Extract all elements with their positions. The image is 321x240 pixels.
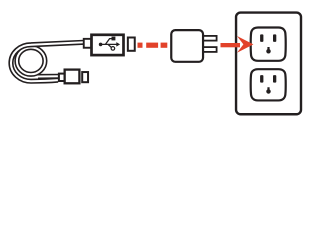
charger prong lower [203,47,217,52]
outlet receptacle upper [251,28,286,61]
outlet wall plate [236,13,301,115]
USB trident dot (tail) [99,43,103,47]
charger body [171,30,203,62]
lower receptacle right slot [273,75,276,83]
micro-USB connector neck [59,74,66,81]
USB trident square terminal [112,37,116,41]
cable outer loop and lead to USB-A connector [11,42,84,81]
lower receptacle ground hole [266,87,270,94]
upper receptacle left slot [260,34,263,42]
USB-A connector neck [84,39,92,48]
upper receptacle right slot [273,34,276,42]
USB trident arrowhead [116,42,120,47]
cable lead to micro-USB connector [38,74,60,79]
lower receptacle left slot [260,75,263,83]
red dashed line from USB-A to charger [138,43,168,48]
outlet receptacle lower [251,69,286,100]
micro-USB connector body [65,70,80,84]
micro-USB connector tip [82,72,88,82]
red arrow head [237,36,253,53]
cable coil inner wrap [17,48,45,75]
charger prong upper [203,36,217,41]
red arrow shaft from charger to outlet [221,43,241,47]
upper receptacle ground hole [266,47,270,54]
USB trident symbol [101,39,118,48]
USB-A connector tip [128,38,135,51]
USB trident circle terminal [111,47,115,51]
USB-A connector body [92,35,124,55]
